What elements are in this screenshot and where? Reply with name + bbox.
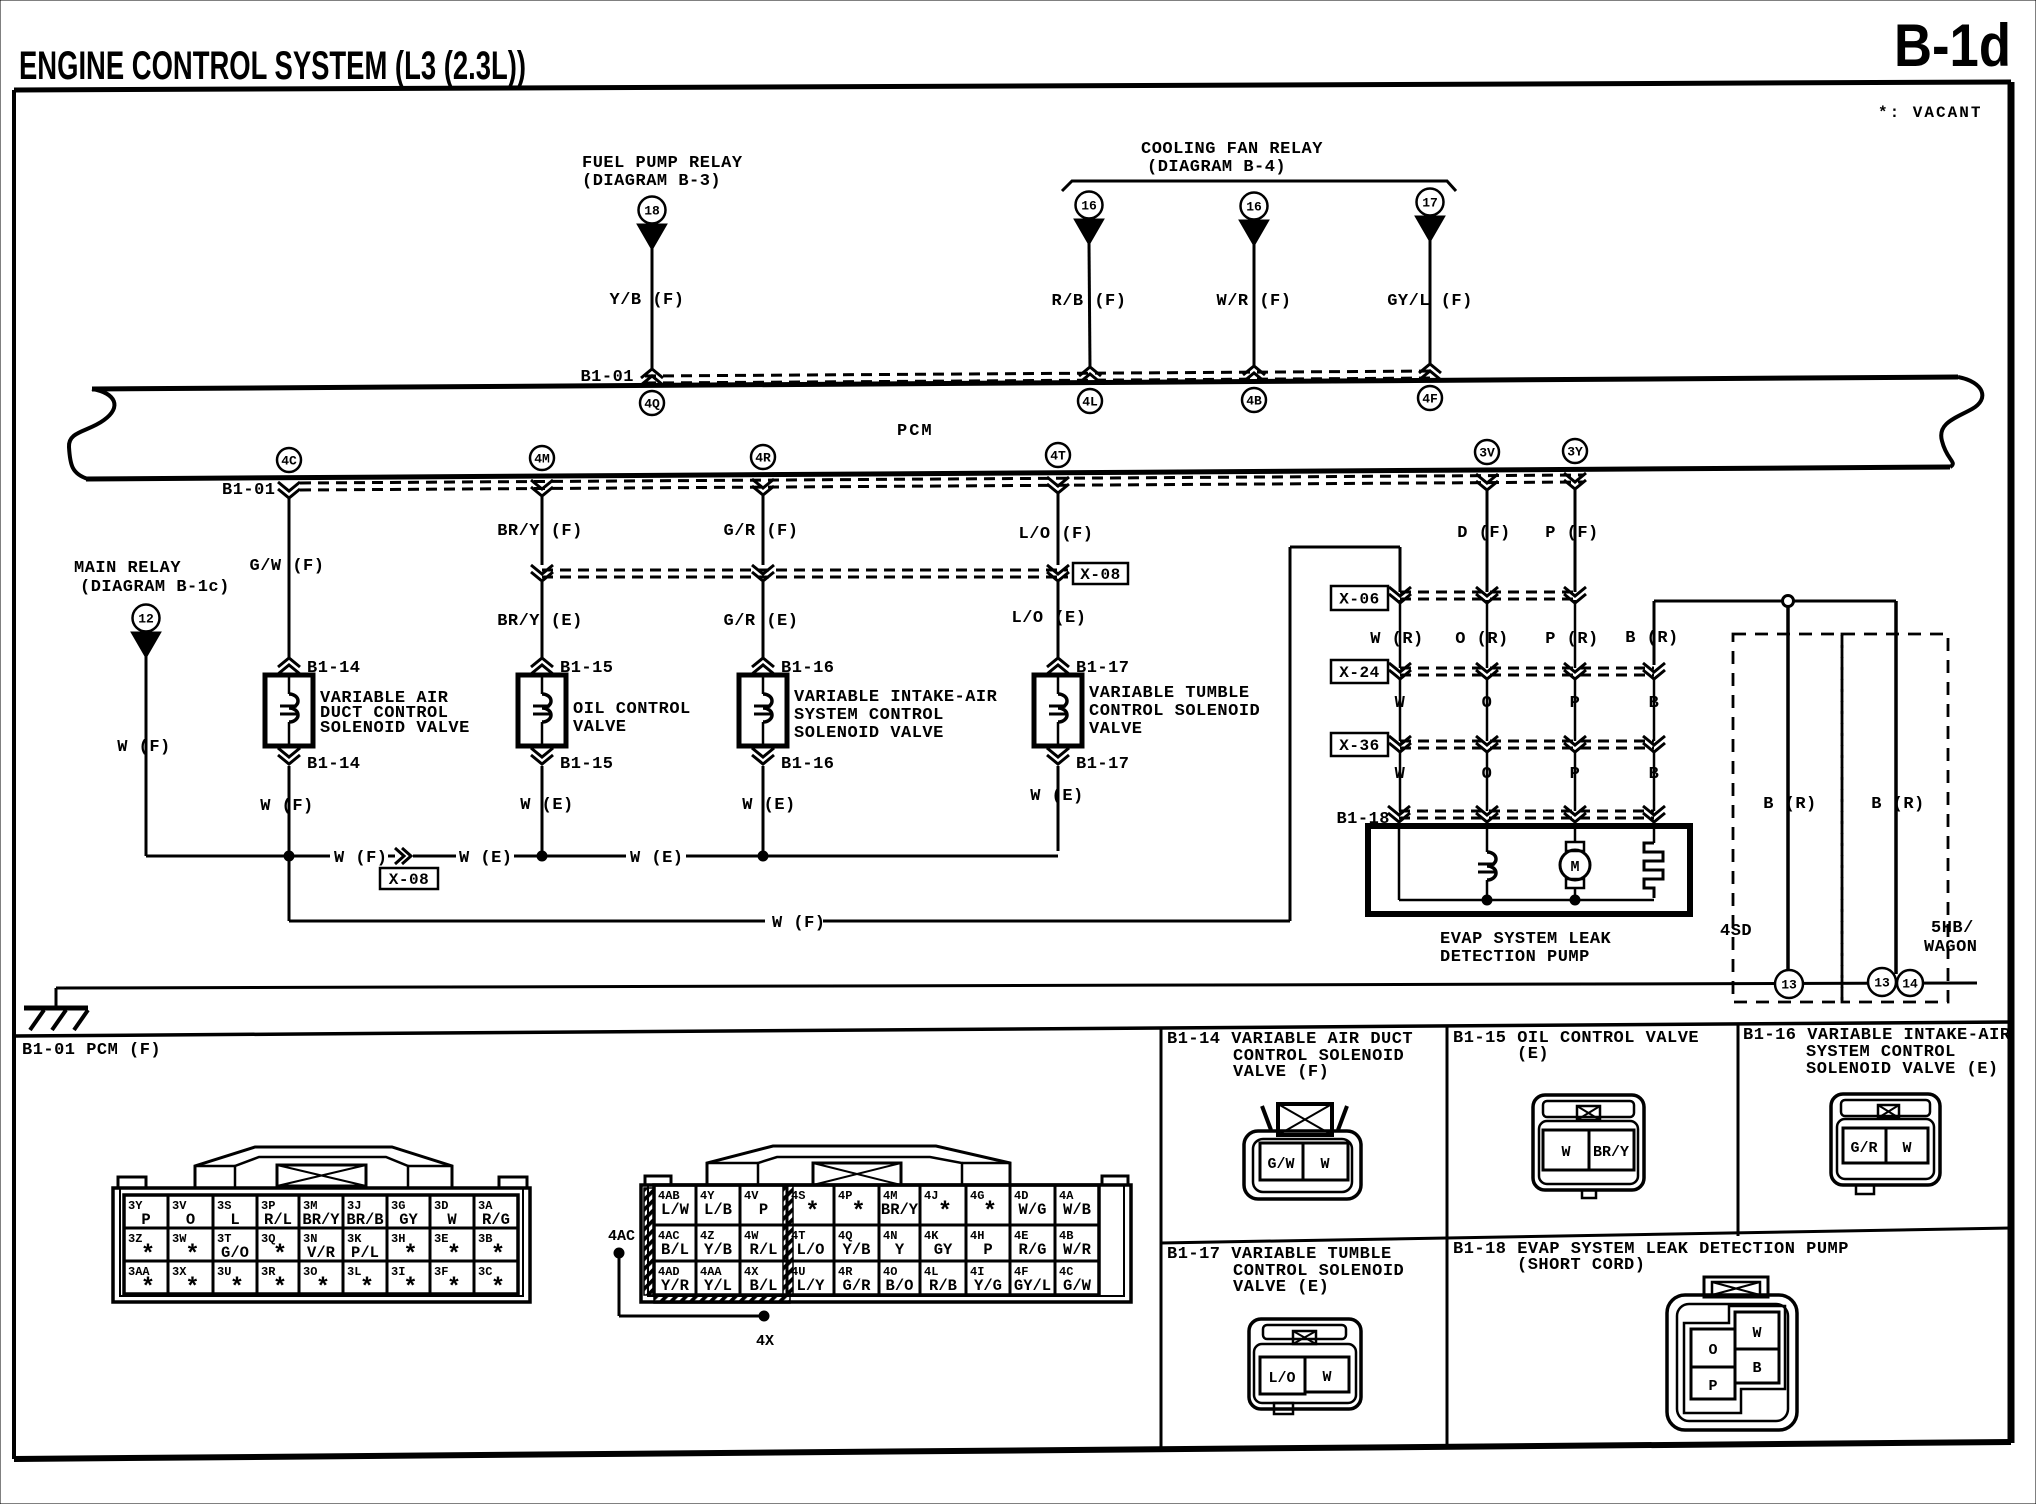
connector 16 cooling fan relay B (1239, 193, 1269, 247)
svg-text:W (F): W (F) (772, 914, 826, 933)
svg-text:GY: GY (399, 1211, 418, 1229)
svg-text:12: 12 (138, 612, 154, 627)
connector X-08 crossing at x=763 (752, 565, 774, 581)
connector B1-01 right pin grid (654, 1185, 1099, 1295)
wire P (R) segments (1574, 600, 1577, 811)
page code B-1d (1894, 12, 2011, 79)
cell title B1-17 variable tumble control solenoid valve (E) (1167, 1245, 1404, 1297)
connector X-06 crossing x=1400 (1389, 587, 1411, 603)
junction node at B1-14 wire (284, 851, 294, 861)
svg-text:L/Y: L/Y (797, 1277, 826, 1295)
fuel pump relay label (582, 154, 743, 191)
svg-text:(DIAGRAM B-3): (DIAGRAM B-3) (582, 172, 721, 191)
cell title B1-15 oil control valve (E) (1453, 1029, 1699, 1064)
svg-text:*: * (491, 1275, 505, 1302)
svg-text:G/W: G/W (1267, 1156, 1294, 1173)
svg-text:CONTROL SOLENOID: CONTROL SOLENOID (1089, 702, 1260, 721)
wire P (F) from 3Y (1545, 489, 1599, 592)
svg-text:4X: 4X (756, 1333, 774, 1350)
label B1-01 PCM (F) (22, 1041, 161, 1060)
svg-text:W (R): W (R) (1370, 630, 1424, 649)
svg-text:B1-01 PCM (F): B1-01 PCM (F) (22, 1041, 161, 1060)
svg-text:DETECTION PUMP: DETECTION PUMP (1440, 948, 1590, 967)
svg-text:W/R: W/R (1063, 1241, 1092, 1259)
svg-text:4AC: 4AC (608, 1228, 635, 1245)
svg-text:(DIAGRAM B-1c): (DIAGRAM B-1c) (80, 578, 230, 597)
connector X-24 crossing x=1400 (1389, 663, 1411, 679)
svg-text:VARIABLE TUMBLE: VARIABLE TUMBLE (1089, 684, 1250, 703)
svg-text:L/O (F): L/O (F) (1019, 525, 1094, 544)
connector X-06 label box (1331, 586, 1388, 610)
connector B1-18 crossing x=1487 (1476, 806, 1498, 822)
svg-text:B (R): B (R) (1871, 795, 1925, 814)
svg-text:MAIN RELAY: MAIN RELAY (74, 559, 181, 578)
note vacant legend (1878, 104, 1982, 122)
connector B1-01 right hatched key strips (644, 1185, 793, 1303)
svg-text:4B: 4B (1246, 394, 1262, 409)
svg-text:4R: 4R (755, 451, 771, 466)
svg-text:FUEL PUMP RELAY: FUEL PUMP RELAY (582, 154, 743, 173)
cooling fan relay label (1141, 140, 1323, 177)
svg-text:*: * (805, 1199, 819, 1226)
connector X-08 label box (1073, 563, 1128, 584)
wire B (R) corner from right (1625, 601, 1896, 665)
cell title B1-14 variable air duct control solenoid valve (F) (1167, 1030, 1413, 1082)
svg-text:B1-17: B1-17 (1076, 755, 1130, 774)
svg-text:*: * (185, 1242, 199, 1269)
svg-text:4J: 4J (924, 1189, 938, 1203)
label B1-18 (1336, 810, 1390, 829)
svg-text:3D: 3D (434, 1199, 448, 1213)
connector 18 fuel pump relay (637, 197, 667, 251)
svg-text:B1-15 OIL CONTROL VALVE: B1-15 OIL CONTROL VALVE (1453, 1029, 1699, 1048)
cell title B1-16 variable intake-air system control solenoid valve (E) (1743, 1026, 2011, 1079)
svg-text:B1-14: B1-14 (307, 755, 361, 774)
svg-text:4H: 4H (970, 1229, 984, 1243)
connector B1-01 PCM(F) left shell (113, 1177, 530, 1302)
pin 3Y of PCM (B1-01) (1563, 439, 1587, 489)
svg-text:L/W: L/W (661, 1201, 690, 1219)
svg-text:W (E): W (E) (1030, 787, 1084, 806)
svg-text:*: * (185, 1275, 199, 1302)
connector X-08 crossing at x=542 (531, 565, 553, 581)
svg-text:4SD: 4SD (1720, 922, 1752, 941)
svg-text:W: W (1561, 1144, 1570, 1161)
svg-text:BR/Y: BR/Y (302, 1211, 340, 1229)
connector X-24 crossing x=1654 (1643, 663, 1665, 679)
connector X-36 crossing x=1487 (1476, 736, 1498, 752)
connector X-24 dashed row (1400, 668, 1654, 675)
svg-text:B-1d: B-1d (1894, 12, 2011, 79)
svg-text:4M: 4M (534, 452, 550, 467)
connector drawing B1-14 (1244, 1104, 1361, 1199)
labels W O P B below X-36 (1395, 765, 1660, 784)
svg-text:(DIAGRAM B-4): (DIAGRAM B-4) (1147, 158, 1286, 177)
svg-text:W (E): W (E) (742, 796, 796, 815)
connector drawing B1-17 (1249, 1319, 1361, 1414)
connector B1-01 top dashed row (645, 371, 1437, 383)
svg-text:G/R: G/R (1850, 1140, 1877, 1157)
wire R/B (F) to PCM 4L (1052, 243, 1127, 369)
connector 16 cooling fan relay A (1074, 192, 1104, 246)
connector B1-01 left pin grid (124, 1195, 518, 1302)
svg-text:*: * (447, 1242, 461, 1269)
coil solenoid inside pump (1478, 823, 1496, 900)
connector X-08 crossing at x=1058 (1047, 565, 1069, 581)
svg-text:P (F): P (F) (1545, 524, 1599, 543)
svg-text:14: 14 (1902, 977, 1918, 992)
svg-text:18: 18 (644, 204, 660, 219)
svg-text:W/B: W/B (1063, 1201, 1091, 1219)
svg-text:*: * (447, 1275, 461, 1302)
wire B (R) to connector 13/14 right (1871, 601, 1925, 974)
svg-text:VALVE (F): VALVE (F) (1233, 1063, 1329, 1082)
svg-text:W/R (F): W/R (F) (1217, 292, 1292, 311)
labels W O P B below X-24 (1395, 694, 1660, 713)
wire L/O (F) from 4T (1019, 493, 1094, 565)
svg-text:W/G: W/G (1019, 1201, 1047, 1219)
bottom panel divider line (14, 1022, 2011, 1036)
reference element inside pump (1644, 823, 1663, 898)
connector B1-14 upper (278, 658, 361, 678)
svg-text:R/B (F): R/B (F) (1052, 292, 1127, 311)
PCM label (897, 422, 934, 441)
junction node at B1-15 wire (537, 851, 547, 861)
solenoid valve B1-16 (739, 675, 787, 746)
wire G/R (E) to B1-16 (724, 582, 799, 658)
connector X-36 label box (1331, 733, 1388, 756)
svg-text:L: L (230, 1211, 239, 1229)
svg-text:B1-16: B1-16 (781, 755, 835, 774)
wire W (E) below B1-17 (1030, 766, 1084, 851)
svg-text:G/R (E): G/R (E) (724, 612, 799, 631)
svg-text:R/L: R/L (264, 1211, 292, 1229)
svg-text:R/L: R/L (750, 1241, 778, 1259)
svg-text:*: * (403, 1275, 417, 1302)
svg-text:EVAP SYSTEM LEAK: EVAP SYSTEM LEAK (1440, 930, 1612, 949)
svg-text:X-08: X-08 (1080, 566, 1120, 584)
svg-text:W: W (1320, 1156, 1329, 1173)
svg-text:SOLENOID VALVE (E): SOLENOID VALVE (E) (1806, 1060, 1999, 1079)
ground symbol chassis (24, 1008, 88, 1030)
solenoid valve B1-17 (1034, 675, 1082, 746)
svg-text:Y/L: Y/L (704, 1277, 732, 1295)
connector B1-18 crossing x=1654 (1643, 806, 1665, 822)
bottom panel vertical divider mid (1446, 1026, 1449, 1445)
svg-text:4T: 4T (1050, 449, 1066, 464)
svg-text:SYSTEM CONTROL: SYSTEM CONTROL (794, 706, 944, 725)
svg-text:B1-15: B1-15 (560, 755, 614, 774)
svg-text:B1-01: B1-01 (222, 481, 276, 500)
connector drawing B1-15 (1533, 1095, 1644, 1198)
connector B1-01 left hood (195, 1147, 452, 1188)
svg-text:WAGON: WAGON (1924, 938, 1978, 957)
title ENGINE CONTROL SYSTEM (L3 (2.3L)) (19, 44, 526, 88)
wire W (F) long run to X-06 (289, 547, 1400, 933)
svg-text:4V: 4V (744, 1189, 759, 1203)
svg-text:G/O: G/O (221, 1244, 249, 1262)
wire junction line W(F)-W(E) (146, 855, 1058, 858)
svg-text:(SHORT CORD): (SHORT CORD) (1517, 1256, 1645, 1275)
svg-text:V/R: V/R (307, 1244, 336, 1262)
connector X-36 crossing x=1654 (1643, 736, 1665, 752)
junction node at B1-16 wire (758, 851, 768, 861)
svg-text:W: W (1322, 1369, 1331, 1386)
pin 3V of PCM (B1-01) (1475, 440, 1499, 490)
svg-text:W (F): W (F) (334, 849, 388, 868)
connector X-08 dashed row (542, 570, 1068, 577)
svg-text:L/O (E): L/O (E) (1012, 609, 1087, 628)
svg-text:3V: 3V (1479, 446, 1495, 461)
svg-text:VALVE: VALVE (1089, 720, 1143, 739)
connector 12 main relay (131, 605, 161, 659)
svg-text:VALVE (E): VALVE (E) (1233, 1278, 1329, 1297)
svg-text:R/B: R/B (929, 1277, 957, 1295)
svg-text:W: W (1902, 1140, 1911, 1157)
svg-text:G/W (F): G/W (F) (250, 557, 325, 576)
svg-text:3Y: 3Y (1567, 445, 1583, 460)
svg-text:16: 16 (1246, 200, 1262, 215)
connector B1-16 lower (752, 748, 835, 774)
connector B1-18 crossing x=1399 (1388, 806, 1410, 822)
pin 4M of PCM (B1-01) (530, 446, 554, 496)
svg-text:B/O: B/O (886, 1277, 914, 1295)
svg-text:*: * (491, 1242, 505, 1269)
connector B1-01 PCM(F) right shell (641, 1176, 1131, 1302)
svg-text:4P: 4P (838, 1189, 852, 1203)
svg-text:W (E): W (E) (520, 796, 574, 815)
label text B1-17 (1089, 684, 1260, 739)
svg-text:B1-18 EVAP SYSTEM LEAK DETECTI: B1-18 EVAP SYSTEM LEAK DETECTION PUMP (1453, 1240, 1849, 1259)
label 4SD (1720, 922, 1752, 941)
svg-text:R/G: R/G (1019, 1241, 1047, 1259)
svg-text:GY/L: GY/L (1014, 1277, 1051, 1295)
bottom panel row divider (1161, 1228, 2011, 1243)
svg-text:P: P (759, 1201, 768, 1219)
svg-text:B: B (1752, 1360, 1761, 1377)
svg-text:X-36: X-36 (1339, 737, 1379, 755)
node junction open circle (1783, 596, 1794, 607)
wire B (R) to connector 13 left (1763, 607, 1817, 970)
svg-text:L/O: L/O (797, 1241, 825, 1259)
pin 4L of PCM (B1-01) (1078, 367, 1102, 413)
node 4AC external (608, 1228, 774, 1350)
bottom panel vertical divider right (row1 only) (1737, 1024, 1740, 1236)
svg-text:(E): (E) (1517, 1045, 1549, 1064)
svg-text:P: P (1708, 1378, 1717, 1395)
connector B1-01 bottom dashed row (300, 475, 1583, 490)
svg-text:17: 17 (1422, 196, 1438, 211)
svg-text:B (R): B (R) (1625, 629, 1679, 648)
wire W (R) segments (1399, 600, 1402, 811)
ground connector 13 right (1868, 968, 1896, 996)
svg-text:BR/B: BR/B (346, 1211, 383, 1229)
label B1-01 top (580, 368, 634, 387)
connector drawing B1-18 (1667, 1277, 1797, 1430)
svg-text:OIL CONTROL: OIL CONTROL (573, 700, 691, 719)
svg-text:4C: 4C (281, 454, 297, 469)
svg-text:W (F): W (F) (260, 797, 314, 816)
wire W inside pump (1398, 823, 1401, 900)
wire W/R (F) to PCM 4B (1217, 244, 1292, 368)
svg-text:COOLING FAN RELAY: COOLING FAN RELAY (1141, 140, 1323, 159)
connector X-06 dashed row (1400, 592, 1575, 599)
wire L/O (E) to B1-17 (1012, 582, 1087, 658)
svg-text:Y/G: Y/G (974, 1277, 1002, 1295)
svg-text:16: 16 (1081, 199, 1097, 214)
cell title B1-18 EVAP system leak detection pump (short cord) (1453, 1240, 1849, 1275)
svg-text:VALVE: VALVE (573, 718, 627, 737)
svg-text:VARIABLE INTAKE-AIR: VARIABLE INTAKE-AIR (794, 688, 998, 707)
svg-text:ENGINE CONTROL SYSTEM (L3 (2.3: ENGINE CONTROL SYSTEM (L3 (2.3L)) (19, 44, 526, 88)
svg-text:BR/Y: BR/Y (1593, 1144, 1629, 1161)
svg-text:Y/R: Y/R (661, 1277, 690, 1295)
label W (E) on junction line 1 (459, 849, 513, 868)
wire O (R) segments (1486, 600, 1489, 811)
svg-text:*: * (938, 1199, 952, 1226)
connector X-36 dashed row (1400, 741, 1654, 748)
connector B1-18 dashed row (1399, 811, 1654, 818)
svg-text:GY: GY (934, 1241, 953, 1259)
ground wire (56, 983, 1977, 1008)
svg-text:G/R (F): G/R (F) (724, 522, 799, 541)
connector X-08 inline label box (380, 868, 438, 889)
svg-text:*: VACANT: *: VACANT (1878, 104, 1982, 122)
wire GY/L (F) to PCM 4F (1387, 240, 1473, 366)
main relay label (74, 559, 230, 597)
svg-text:*: * (851, 1199, 865, 1226)
svg-text:*: * (230, 1275, 244, 1302)
svg-text:X-24: X-24 (1339, 664, 1379, 682)
svg-text:P: P (983, 1241, 992, 1259)
svg-text:SOLENOID VALVE: SOLENOID VALVE (794, 724, 944, 743)
connector X-24 label box (1331, 660, 1388, 683)
svg-text:SOLENOID VALVE: SOLENOID VALVE (320, 719, 470, 738)
svg-text:Y/B: Y/B (843, 1241, 871, 1259)
pin 4Q of PCM (B1-01) (640, 369, 664, 415)
wire G/W (F) from 4C to B1-14 (250, 498, 325, 658)
wire BR/Y (E) to B1-15 (497, 582, 583, 658)
connector B1-01 left keying X-box (277, 1165, 366, 1186)
connector X-36 crossing x=1400 (1389, 736, 1411, 752)
label text B1-16 (794, 688, 998, 743)
svg-text:*: * (403, 1242, 417, 1269)
svg-text:*: * (316, 1275, 330, 1302)
wire W (E) below B1-15 (520, 766, 574, 856)
connector X-08 inline chevron (395, 848, 411, 864)
bottom panel vertical divider left (1160, 1029, 1163, 1448)
connector B1-15 lower (531, 748, 614, 774)
svg-text:O (R): O (R) (1455, 630, 1509, 649)
option box 5HB/WAGON dashed (1842, 634, 1948, 1002)
svg-text:PCM: PCM (897, 422, 934, 441)
label text B1-15 (573, 700, 691, 737)
svg-text:B (R): B (R) (1763, 795, 1817, 814)
svg-text:W: W (447, 1211, 457, 1229)
ground connector 13 left (1775, 970, 1803, 998)
svg-text:W (E): W (E) (630, 849, 684, 868)
cooling fan relay bracket (1062, 181, 1456, 191)
svg-text:G/R: G/R (843, 1277, 872, 1295)
svg-text:R/G: R/G (482, 1211, 510, 1229)
svg-text:D (F): D (F) (1457, 524, 1511, 543)
label W (F) on junction line (334, 849, 388, 868)
wire Y/B (F) fuel pump relay to PCM 4Q (610, 248, 685, 371)
svg-text:*: * (273, 1275, 287, 1302)
svg-text:L/B: L/B (704, 1201, 732, 1219)
label W (E) on junction line 2 (630, 849, 684, 868)
svg-text:O: O (186, 1211, 195, 1229)
svg-text:*: * (360, 1275, 374, 1302)
pin 4F of PCM (B1-01) (1418, 364, 1442, 410)
pump internal common wire (1399, 895, 1654, 905)
connector drawing B1-16 (1831, 1094, 1940, 1194)
connector X-36 crossing x=1575 (1564, 736, 1586, 752)
svg-text:X-08: X-08 (389, 871, 429, 889)
svg-text:5HB/: 5HB/ (1931, 919, 1974, 938)
wire G/R (F) from 4R (724, 495, 799, 565)
svg-text:GY/L (F): GY/L (F) (1387, 292, 1473, 311)
EVAP system leak detection pump box B1-18 (1368, 826, 1690, 914)
svg-text:P (R): P (R) (1545, 630, 1599, 649)
connector B1-01 right hood (707, 1146, 1010, 1185)
connector X-24 crossing x=1575 (1564, 663, 1586, 679)
svg-text:B1-01: B1-01 (580, 368, 634, 387)
pin 4T of PCM (B1-01) (1046, 443, 1070, 493)
pin 4C of PCM (B1-01) (277, 448, 301, 498)
svg-text:BR/Y (F): BR/Y (F) (497, 522, 583, 541)
connector B1-01 right keying X-box (813, 1163, 901, 1185)
svg-text:B/L: B/L (750, 1277, 778, 1295)
svg-text:3S: 3S (217, 1199, 231, 1213)
label text B1-14 (320, 689, 470, 738)
svg-text:O: O (1708, 1342, 1717, 1359)
connector B1-17 upper (1047, 658, 1130, 678)
connector 17 cooling fan relay (1415, 189, 1445, 243)
svg-text:4Q: 4Q (644, 397, 660, 412)
svg-text:W: W (1752, 1325, 1761, 1342)
label B1-01 bottom (222, 481, 276, 500)
svg-text:W (F): W (F) (117, 738, 171, 757)
connector X-24 crossing x=1487 (1476, 663, 1498, 679)
wire BR/Y (F) from 4M (497, 496, 583, 565)
label 5HB/WAGON (1924, 919, 1978, 957)
solenoid valve B1-15 (518, 675, 566, 746)
svg-text:X-06: X-06 (1339, 591, 1379, 609)
svg-text:*: * (983, 1199, 997, 1226)
svg-text:4L: 4L (1082, 395, 1098, 410)
svg-text:W (E): W (E) (459, 849, 513, 868)
svg-text:P: P (141, 1211, 150, 1229)
svg-text:L/O: L/O (1268, 1370, 1295, 1387)
option box 4SD dashed (1733, 634, 1842, 1002)
svg-text:B/L: B/L (661, 1241, 689, 1259)
svg-text:Y/B: Y/B (704, 1241, 732, 1259)
connector B1-15 upper (531, 658, 614, 678)
svg-text:*: * (141, 1275, 155, 1302)
connector X-06 crossing x=1575 (1564, 587, 1586, 603)
svg-text:13: 13 (1781, 978, 1797, 993)
wire W (F) from main relay (117, 656, 171, 856)
connector B1-14 lower (278, 748, 361, 774)
svg-text:13: 13 (1874, 976, 1890, 991)
wire W (F) below B1-14 (260, 766, 314, 856)
svg-text:P/L: P/L (351, 1244, 379, 1262)
labels W(R) O(R) P(R) below X-06 (1370, 630, 1599, 649)
EVAP pump caption (1440, 930, 1612, 967)
svg-text:BR/Y (E): BR/Y (E) (497, 612, 583, 631)
connector B1-17 lower (1047, 748, 1130, 774)
